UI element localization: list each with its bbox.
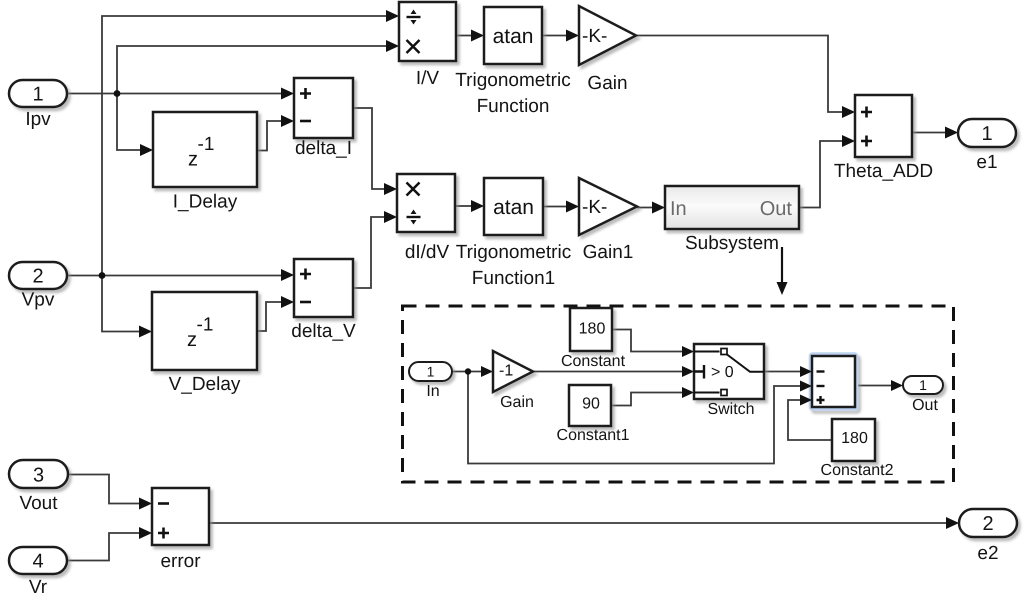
svg-text:180: 180: [579, 321, 606, 338]
svg-text:Constant2: Constant2: [821, 462, 894, 479]
inner wire: Gain -1 to Switch control input: [533, 371, 683, 373]
svg-text:1: 1: [981, 123, 992, 145]
arrow into Sum input 3: [800, 395, 812, 406]
wire: Vr port into error plus input: [67, 533, 141, 561]
svg-text:3: 3: [33, 465, 44, 487]
arrow into Theta_ADD input2: [842, 135, 855, 147]
wire: Ipv branch up to I/V multiply input: [117, 46, 388, 94]
svg-text:Gain: Gain: [500, 394, 534, 411]
sum block Theta_ADD: [855, 95, 912, 157]
svg-text:delta_V: delta_V: [291, 321, 356, 342]
arrow into Subsystem In: [652, 202, 665, 214]
svg-text:-K-: -K-: [582, 197, 607, 218]
wire: Vout port into error minus input: [68, 475, 141, 504]
junction dot after inner In port: [465, 368, 471, 374]
arrow into atan1: [471, 200, 484, 212]
svg-text:Gain1: Gain1: [583, 242, 634, 263]
svg-text:atan: atan: [493, 25, 534, 48]
gain block Gain1 -K-: [579, 178, 637, 235]
arrow into inner Out port: [891, 380, 903, 391]
svg-text:Trigonometric: Trigonometric: [456, 242, 571, 263]
arrow into dI/dV divide: [384, 211, 397, 223]
wire: Gain output to Theta_ADD input 1: [636, 36, 844, 113]
output port e1: [958, 119, 1016, 147]
constant block Constant2 180: [832, 419, 875, 461]
unit delay block I_Delay: [153, 112, 257, 187]
svg-text:I/V: I/V: [416, 68, 440, 89]
wire: Vpv vertical feed to I/V divide input: [102, 16, 388, 276]
inner gain block Gain -1: [493, 351, 533, 392]
svg-text:Out: Out: [912, 397, 938, 414]
arrow into Switch input 1: [682, 346, 694, 357]
wire: Vpv port to delta_V plus input: [67, 275, 283, 277]
sum block error: [152, 488, 209, 545]
arrow into atan: [471, 30, 484, 42]
svg-text:-1: -1: [197, 315, 214, 336]
arrow into Gain1: [566, 201, 579, 213]
wire: dI/dV to atan1: [455, 205, 473, 207]
arrow into port e1: [945, 127, 958, 139]
svg-text:Vout: Vout: [19, 493, 58, 514]
svg-text:Function1: Function1: [472, 268, 555, 289]
svg-text:90: 90: [582, 396, 600, 413]
arrow into delta_V minus: [281, 296, 294, 308]
arrow into I_Delay: [140, 144, 153, 156]
svg-text:1: 1: [427, 364, 435, 380]
arrow into delta_I minus: [281, 115, 294, 127]
svg-text:2: 2: [982, 513, 993, 535]
divide block dI/dV: [397, 174, 455, 232]
arrow into error minus: [139, 498, 152, 510]
annotation arrow from Subsystem label down to dashed box: [781, 247, 783, 283]
svg-text:4: 4: [32, 551, 43, 573]
arrow into delta_V plus: [281, 269, 294, 281]
trig block atan1 (Trigonometric Function1): [484, 178, 543, 235]
arrow into I/V divide input: [386, 10, 399, 22]
inner sum block (selected) minus minus plus: [812, 356, 855, 407]
arrow into Sum input 1: [800, 366, 812, 377]
inner wire: Sum output to Out port: [855, 385, 892, 387]
input port 1 Ipv: [9, 80, 67, 107]
input port 4 Vr: [9, 547, 67, 574]
arrow into dI/dV multiply: [384, 183, 397, 195]
svg-text:2: 2: [32, 266, 43, 288]
svg-text:Gain: Gain: [587, 73, 627, 94]
inner wire: In branch down and around to Sum input 2: [468, 372, 801, 464]
switch block Switch: [694, 344, 764, 399]
wire: Gain1 to Subsystem In: [637, 207, 654, 209]
arrow into port e2: [946, 517, 959, 529]
wire: error output to port e2: [209, 522, 948, 524]
svg-text:> 0: > 0: [711, 364, 734, 381]
svg-text:Out: Out: [760, 198, 793, 220]
wire: I/V to atan: [456, 35, 473, 37]
arrow into Gain -1: [481, 366, 493, 377]
wire: V_Delay output to delta_V minus input: [257, 302, 283, 331]
arrow into Switch input 3: [682, 387, 694, 398]
junction dot on Ipv wire: [114, 90, 121, 97]
arrow into I/V multiply input: [386, 40, 399, 52]
junction dot on Vpv wire: [99, 272, 106, 279]
arrow into Switch control input: [682, 366, 694, 377]
wire: Theta_ADD output to port e1: [912, 132, 947, 134]
inner wire: In port to Gain -1: [452, 371, 482, 373]
wire: atan to Gain: [542, 35, 568, 37]
constant block Constant1 90: [569, 385, 611, 426]
input port 2 Vpv: [9, 262, 67, 289]
wire: I_Delay output to delta_I minus input: [257, 121, 283, 151]
svg-text:180: 180: [841, 430, 868, 447]
arrow into Gain: [566, 30, 579, 42]
inner input port 1 In: [409, 362, 452, 381]
svg-text:Theta_ADD: Theta_ADD: [834, 161, 933, 182]
svg-text:Switch: Switch: [707, 401, 754, 418]
svg-text:e2: e2: [977, 543, 998, 564]
unit delay block V_Delay: [152, 292, 257, 370]
wire: Vpv branch down into V_Delay: [102, 276, 141, 332]
svg-text:delta_I: delta_I: [295, 138, 352, 159]
inner wire: Constant2 to Sum input 3: [788, 400, 832, 440]
inner wire: Constant1 90 to Switch input 3: [611, 393, 683, 406]
gain block Gain -K-: [579, 6, 636, 65]
inner wire: Constant 180 to Switch input 1: [612, 330, 683, 352]
wire: atan1 to Gain1: [543, 206, 568, 208]
svg-text:Vpv: Vpv: [22, 290, 55, 311]
svg-text:-1: -1: [499, 363, 513, 380]
svg-text:In: In: [670, 198, 687, 220]
svg-text:Constant1: Constant1: [557, 427, 630, 444]
wire: delta_V output to dI/dV divide input: [353, 217, 386, 288]
subsystem block Subsystem: [665, 186, 799, 229]
svg-text:dI/dV: dI/dV: [405, 242, 450, 263]
svg-text:atan: atan: [493, 196, 534, 219]
arrow into error plus: [139, 527, 152, 539]
svg-text:Function: Function: [477, 96, 550, 117]
input port 3 Vout: [9, 460, 68, 488]
wire: Ipv port to delta_I plus input: [67, 93, 283, 95]
svg-text:I_Delay: I_Delay: [173, 192, 238, 213]
inner output port 1 Out: [903, 376, 943, 394]
dashed subsystem contents box: [403, 306, 954, 482]
svg-text:1: 1: [919, 377, 927, 393]
arrow into V_Delay: [139, 326, 152, 338]
sum block delta_I: [294, 78, 353, 138]
wire: Subsystem Out to Theta_ADD input 2: [799, 141, 844, 208]
trig block atan (Trigonometric Function): [484, 7, 542, 64]
svg-text:z: z: [187, 329, 197, 351]
wire: delta_I output to dI/dV multiply input: [353, 108, 386, 189]
constant block Constant 180: [570, 308, 612, 351]
svg-text:Ipv: Ipv: [25, 109, 51, 130]
svg-text:In: In: [426, 383, 439, 400]
arrow into delta_I plus: [281, 88, 294, 100]
arrow into Theta_ADD input1: [842, 106, 855, 118]
wire: Ipv branch down into I_Delay: [117, 94, 142, 151]
svg-text:-K-: -K-: [582, 26, 607, 47]
svg-text:Vr: Vr: [29, 577, 48, 598]
svg-text:V_Delay: V_Delay: [169, 374, 241, 395]
sum block delta_V: [294, 259, 353, 317]
svg-text:e1: e1: [976, 152, 997, 173]
selection halo around inner Sum block: [811, 354, 857, 409]
output port e2: [959, 509, 1017, 537]
svg-text:Subsystem: Subsystem: [685, 233, 779, 254]
svg-text:1: 1: [32, 84, 43, 106]
divide block I/V: [399, 2, 456, 61]
svg-text:Trigonometric: Trigonometric: [455, 70, 570, 91]
inner wire: Switch output to Sum input 1: [764, 371, 801, 373]
svg-text:error: error: [160, 551, 201, 572]
svg-text:Constant: Constant: [561, 353, 626, 370]
svg-text:z: z: [188, 149, 198, 171]
arrow into Sum input 2: [800, 381, 812, 392]
svg-text:-1: -1: [198, 134, 215, 155]
